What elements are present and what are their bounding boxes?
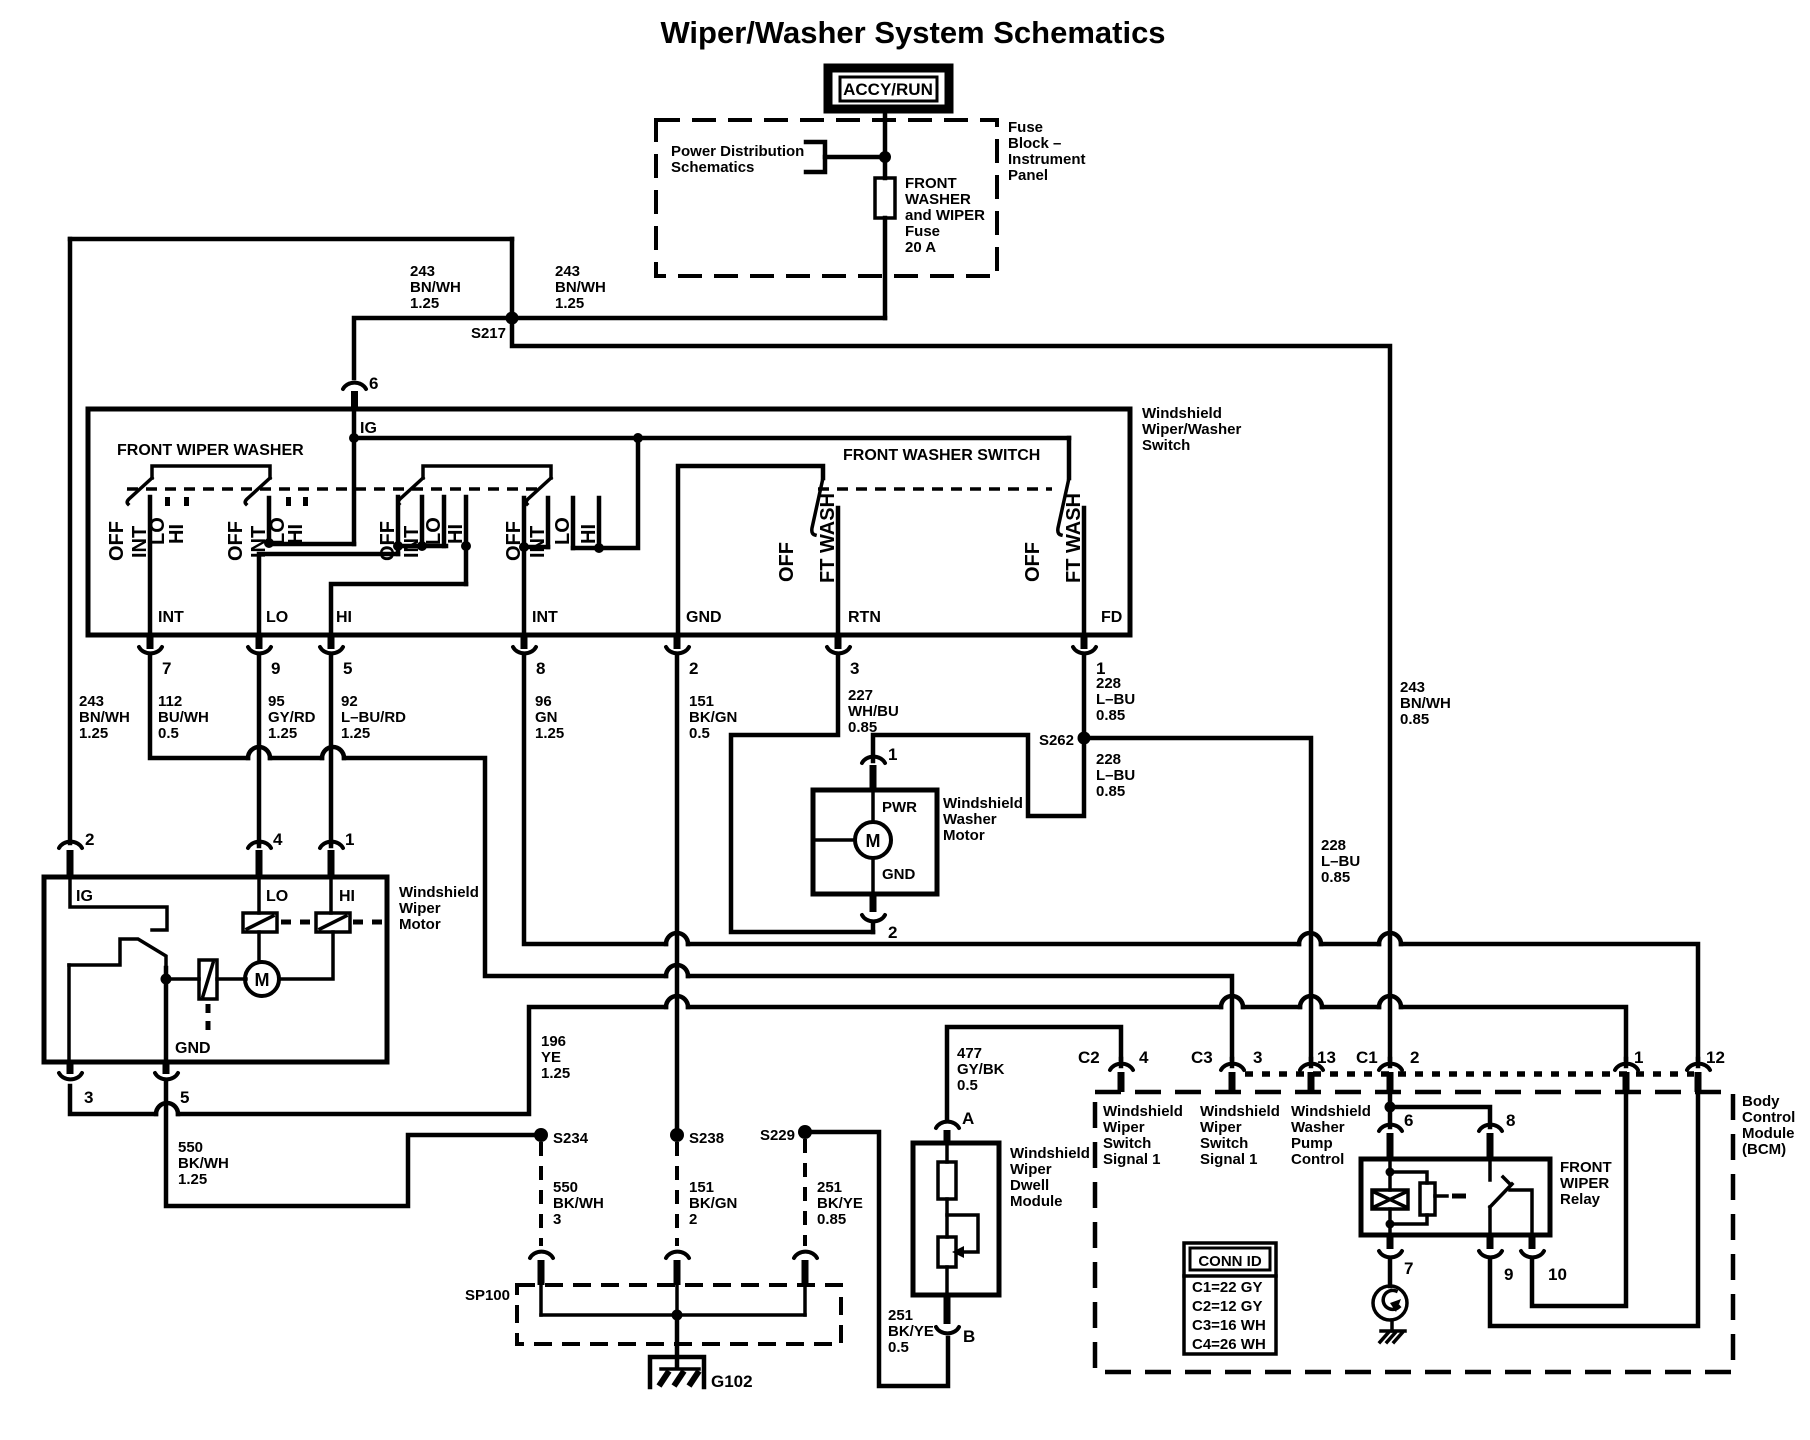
svg-text:151: 151 bbox=[689, 693, 714, 710]
switch blade section 4 bbox=[526, 478, 551, 504]
svg-text:12: 12 bbox=[1706, 1048, 1725, 1067]
svg-text:196: 196 bbox=[541, 1033, 566, 1050]
connector pin 2 bbox=[666, 635, 698, 678]
node IG at vertical bbox=[349, 433, 359, 443]
svg-text:HI: HI bbox=[445, 524, 467, 544]
washer switch B feed from IG bbox=[1067, 438, 1072, 478]
svg-text:GN: GN bbox=[535, 709, 558, 726]
svg-text:GY/BK: GY/BK bbox=[957, 1061, 1005, 1078]
BCM connector C2 pin 4 bbox=[1078, 1048, 1149, 1092]
wire S262 branch to washer motor PWR bbox=[873, 735, 1084, 816]
thermal breaker symbol bbox=[199, 960, 217, 999]
wire relay pin 10 to BCM pin 1 bbox=[1532, 1085, 1626, 1306]
hop bus3 over 243 BN/WH wire bbox=[1379, 996, 1401, 1007]
svg-text:OFF: OFF bbox=[503, 521, 525, 561]
washer switch A bracket and GND leg bbox=[678, 466, 823, 635]
svg-text:HI: HI bbox=[166, 524, 188, 544]
splice pack SP100 dashed box bbox=[517, 1285, 841, 1344]
relay coil with suppressor bbox=[1372, 1159, 1447, 1235]
svg-text:227: 227 bbox=[848, 687, 873, 704]
svg-text:243: 243 bbox=[555, 263, 580, 280]
wire 227 WH/BU pin3 to washer GND loop bbox=[731, 656, 873, 932]
svg-text:C3: C3 bbox=[1191, 1048, 1213, 1067]
svg-text:Relay: Relay bbox=[1560, 1191, 1601, 1208]
hop bus3 over 228 L-BU wire bbox=[1300, 996, 1322, 1007]
svg-text:1.25: 1.25 bbox=[79, 725, 108, 742]
svg-text:C4=26 WH: C4=26 WH bbox=[1192, 1336, 1266, 1353]
label 251 BK/YE 0.5 bbox=[888, 1307, 934, 1356]
svg-text:OFF: OFF bbox=[1022, 542, 1044, 582]
svg-text:20 A: 20 A bbox=[905, 239, 936, 256]
svg-text:C2: C2 bbox=[1078, 1048, 1100, 1067]
dwell potentiometer with wiper arrow bbox=[938, 1215, 978, 1295]
hop over pin9 wire bbox=[248, 747, 270, 758]
svg-text:Windshield: Windshield bbox=[1200, 1103, 1280, 1120]
connector SP100 pin 550 bbox=[530, 1252, 553, 1285]
svg-text:Windshield: Windshield bbox=[399, 884, 479, 901]
svg-text:243: 243 bbox=[410, 263, 435, 280]
wire motor IG internal to park contact bbox=[70, 877, 167, 930]
svg-text:Control: Control bbox=[1742, 1109, 1795, 1126]
splice S234 bbox=[534, 1128, 548, 1142]
switch dashed gang line (wiper sections) bbox=[127, 487, 540, 491]
svg-text:6: 6 bbox=[369, 374, 378, 393]
switch blade section 3 bbox=[398, 478, 423, 504]
svg-text:4: 4 bbox=[1139, 1048, 1149, 1067]
svg-text:HI: HI bbox=[336, 609, 352, 626]
svg-text:3: 3 bbox=[1253, 1048, 1262, 1067]
svg-text:1.25: 1.25 bbox=[341, 725, 370, 742]
svg-text:L–BU: L–BU bbox=[1096, 767, 1135, 784]
svg-text:1: 1 bbox=[888, 745, 897, 764]
wire fuse to S217 bbox=[883, 218, 888, 318]
wire branch to relay pin 8 bbox=[1390, 1107, 1490, 1127]
dashed wire 550 BK/WH 3 S234 to SP100 bbox=[539, 1142, 543, 1246]
svg-text:GND: GND bbox=[175, 1040, 211, 1057]
node IG drop for HI posts bbox=[633, 433, 643, 443]
connector pin 7 bbox=[139, 635, 171, 678]
svg-text:Wiper: Wiper bbox=[1010, 1161, 1052, 1178]
svg-text:FT WASH: FT WASH bbox=[817, 493, 839, 583]
svg-text:BN/WH: BN/WH bbox=[1400, 695, 1451, 712]
section1 INT post to pin 7 bbox=[148, 497, 153, 635]
section4 HI post bbox=[597, 498, 602, 548]
svg-text:Switch: Switch bbox=[1103, 1135, 1151, 1152]
svg-text:2: 2 bbox=[1410, 1048, 1419, 1067]
BCM dotted connector rail bbox=[1245, 1071, 1694, 1077]
relay dash link coil to contact bbox=[1452, 1194, 1466, 1199]
svg-text:1.25: 1.25 bbox=[541, 1065, 570, 1082]
svg-text:and WIPER: and WIPER bbox=[905, 207, 985, 224]
windshield wiper motor box bbox=[44, 877, 387, 1062]
svg-text:1.25: 1.25 bbox=[410, 295, 439, 312]
svg-text:Wiper: Wiper bbox=[399, 900, 441, 917]
HI winding symbol bbox=[316, 913, 350, 932]
label 112 BU/WH 0.5 bbox=[158, 693, 209, 742]
svg-text:0.5: 0.5 bbox=[689, 725, 710, 742]
section3 OFF post bbox=[396, 497, 401, 546]
label FRONT WASHER and WIPER Fuse 20 A bbox=[905, 175, 985, 256]
splice S217 bbox=[506, 312, 519, 325]
hop over GND wire at 167 bbox=[156, 1103, 178, 1114]
svg-text:L–BU: L–BU bbox=[1321, 853, 1360, 870]
svg-text:0.85: 0.85 bbox=[1096, 783, 1125, 800]
svg-text:251: 251 bbox=[817, 1179, 842, 1196]
svg-text:Washer: Washer bbox=[943, 811, 997, 828]
svg-text:5: 5 bbox=[343, 659, 352, 678]
section2 LO contact dot bbox=[286, 497, 291, 506]
section1 LO contact dot bbox=[165, 497, 170, 506]
wire 228 L-BU pin1 to splice S262 bbox=[1082, 656, 1087, 738]
hop bus1 over 243 BN/WH wire bbox=[1379, 933, 1401, 944]
washer motor M symbol bbox=[813, 790, 891, 894]
relay connector pin 10 bbox=[1521, 1235, 1567, 1284]
svg-text:0.85: 0.85 bbox=[1400, 711, 1429, 728]
relay connector pin 6 bbox=[1379, 1111, 1413, 1159]
label 151 BK/GN 0.5 bbox=[689, 693, 737, 742]
svg-text:7: 7 bbox=[162, 659, 171, 678]
svg-text:HI: HI bbox=[285, 524, 307, 544]
svg-text:Wiper: Wiper bbox=[1200, 1119, 1242, 1136]
svg-text:LO: LO bbox=[266, 888, 288, 905]
label Power Distribution Schematics bbox=[671, 143, 804, 176]
wire 550 BK/WH motor GND to S234 bbox=[166, 1083, 535, 1206]
svg-text:0.85: 0.85 bbox=[1096, 707, 1125, 724]
windshield washer motor box bbox=[813, 790, 937, 894]
wire 477 GY/BK dwell A to BCM C2-4 bbox=[947, 1027, 1121, 1120]
wire to bus3 riser bbox=[178, 1007, 666, 1114]
svg-text:Windshield: Windshield bbox=[1142, 405, 1222, 422]
wire LO winding to M bbox=[257, 932, 261, 962]
svg-text:INT: INT bbox=[401, 526, 423, 558]
wire relay pin 9 to BCM pin 12 bbox=[1490, 1085, 1698, 1326]
svg-text:1: 1 bbox=[345, 830, 354, 849]
connector pin 9 bbox=[248, 635, 280, 678]
svg-text:Windshield: Windshield bbox=[943, 795, 1023, 812]
svg-text:ACCY/RUN: ACCY/RUN bbox=[843, 80, 933, 99]
section3 HI post bbox=[464, 497, 469, 546]
label 227 WH/BU 0.85 bbox=[848, 687, 899, 736]
label FRONT WIPER Relay bbox=[1560, 1159, 1612, 1208]
svg-text:INT: INT bbox=[532, 609, 558, 626]
label 251 BK/YE 0.85 bbox=[817, 1179, 863, 1228]
wire C1-2 into relay branch bbox=[1388, 1092, 1393, 1127]
svg-text:9: 9 bbox=[1504, 1265, 1513, 1284]
label Windshield Wiper/Washer Switch bbox=[1142, 405, 1241, 454]
svg-text:FRONT WASHER SWITCH: FRONT WASHER SWITCH bbox=[843, 447, 1040, 464]
svg-text:HI: HI bbox=[339, 888, 355, 905]
wire top loop horizontal 243 BN/WH bbox=[70, 237, 512, 242]
wire S229 to dwell module B bbox=[805, 1132, 948, 1386]
BCM internal ground symbol bbox=[1373, 1286, 1407, 1342]
svg-text:IG: IG bbox=[76, 888, 93, 905]
svg-text:M: M bbox=[866, 831, 881, 851]
wire SP100 to G102 bbox=[675, 1315, 680, 1366]
label 243 BN/WH 1.25 (right) bbox=[555, 263, 606, 312]
svg-text:LO: LO bbox=[552, 517, 574, 545]
splice S229 bbox=[798, 1125, 812, 1139]
wire bus2 to C3 pin 3 bbox=[688, 976, 1232, 1059]
svg-text:95: 95 bbox=[268, 693, 285, 710]
dashed wire 151 BK/GN 2 S238 to SP100 bbox=[675, 1142, 679, 1246]
label 228 L-BU 0.85 right branch bbox=[1321, 837, 1360, 886]
svg-text:1.25: 1.25 bbox=[535, 725, 564, 742]
wire bus1 to BCM pin 12 bbox=[1401, 944, 1698, 1059]
svg-text:0.5: 0.5 bbox=[957, 1077, 978, 1094]
svg-text:S262: S262 bbox=[1039, 732, 1074, 749]
svg-text:Module: Module bbox=[1010, 1193, 1063, 1210]
svg-text:Dwell: Dwell bbox=[1010, 1177, 1049, 1194]
svg-text:WIPER: WIPER bbox=[1560, 1175, 1609, 1192]
svg-text:2: 2 bbox=[888, 923, 897, 942]
svg-text:2: 2 bbox=[85, 830, 94, 849]
wire 95 GY/RD pin9 to motor LO bbox=[257, 656, 262, 843]
wire section3 HI drop bbox=[464, 546, 469, 584]
section4 INT post bbox=[546, 498, 551, 547]
svg-text:550: 550 bbox=[553, 1179, 578, 1196]
svg-text:C1=22 GY: C1=22 GY bbox=[1192, 1279, 1262, 1296]
wire junction down to pin 5 GND bbox=[164, 968, 169, 1062]
windshield wiper dwell module box bbox=[913, 1143, 999, 1295]
node section3 HI bbox=[461, 541, 471, 551]
label Windshield Wiper Switch Signal 1 (C2) bbox=[1103, 1103, 1183, 1168]
hop bus2 over S238 wire bbox=[666, 965, 688, 976]
wire IG entry vertical inside switch bbox=[352, 409, 357, 544]
windshield washer motor connector pin 1 bbox=[862, 745, 897, 790]
svg-text:Fuse: Fuse bbox=[905, 223, 940, 240]
front wiper relay box bbox=[1361, 1159, 1550, 1235]
connector SP100 pin 151 bbox=[666, 1252, 689, 1285]
svg-text:13: 13 bbox=[1317, 1048, 1336, 1067]
node junction at fuse feed bbox=[879, 151, 891, 163]
svg-text:INT: INT bbox=[158, 609, 184, 626]
svg-text:BN/WH: BN/WH bbox=[79, 709, 130, 726]
section4 LO post bbox=[571, 498, 576, 548]
wiper motor connector pin 1 bbox=[320, 830, 354, 877]
svg-text:Motor: Motor bbox=[943, 827, 985, 844]
svg-text:FT WASH: FT WASH bbox=[1063, 493, 1085, 583]
washer switch A FT WASH post to pin 3 RTN bbox=[836, 508, 841, 635]
connector pin 1 bbox=[1073, 635, 1105, 678]
svg-text:2: 2 bbox=[689, 1211, 697, 1228]
dash link HI winding to box bbox=[353, 920, 384, 925]
wire bus1 continuing bbox=[688, 942, 1299, 947]
svg-text:Power Distribution: Power Distribution bbox=[671, 143, 804, 160]
section2 INT post bbox=[267, 498, 272, 544]
svg-text:LO: LO bbox=[423, 517, 445, 545]
windshield wiper/washer switch box bbox=[88, 409, 1130, 635]
node relay feed split bbox=[1385, 1102, 1396, 1113]
washer switch B FT WASH post to pin 1 FD bbox=[1082, 508, 1087, 635]
wire washer pin2 stub to GND loop bbox=[871, 924, 876, 932]
node section3 OFF bbox=[393, 541, 403, 551]
svg-text:92: 92 bbox=[341, 693, 358, 710]
svg-text:G102: G102 bbox=[711, 1372, 753, 1391]
hop over pin5 wire bbox=[322, 747, 344, 758]
svg-text:GND: GND bbox=[882, 866, 916, 883]
svg-text:BK/GN: BK/GN bbox=[689, 709, 737, 726]
connector 6 at switch IG input bbox=[343, 374, 378, 409]
dwell resistor bbox=[938, 1143, 956, 1237]
svg-text:3: 3 bbox=[850, 659, 859, 678]
section3 LO post bbox=[442, 497, 447, 546]
svg-text:2: 2 bbox=[689, 659, 698, 678]
section2 HI contact dot bbox=[303, 497, 308, 506]
connector B dwell module bbox=[936, 1295, 975, 1346]
label 95 GY/RD 1.25 bbox=[268, 693, 316, 742]
svg-text:L–BU/RD: L–BU/RD bbox=[341, 709, 406, 726]
connector pin 5 bbox=[320, 635, 352, 678]
svg-text:CONN ID: CONN ID bbox=[1198, 1253, 1262, 1270]
svg-text:Switch: Switch bbox=[1142, 437, 1190, 454]
svg-text:Motor: Motor bbox=[399, 916, 441, 933]
wire HI collector to pin 5 bbox=[331, 584, 466, 635]
LO winding symbol bbox=[243, 913, 277, 932]
node section4 OFF bbox=[519, 542, 529, 552]
svg-text:IG: IG bbox=[360, 420, 377, 437]
label 228 L-BU 0.85 below S262 bbox=[1096, 751, 1135, 800]
svg-text:Body: Body bbox=[1742, 1093, 1780, 1110]
hop bus1 over 228 L-BU wire bbox=[1299, 933, 1321, 944]
svg-text:477: 477 bbox=[957, 1045, 982, 1062]
fuse FRONT WASHER and WIPER 20A symbol bbox=[875, 178, 895, 218]
hop bus3 over S238 wire bbox=[666, 996, 688, 1007]
dashed link breaker to GND label bbox=[206, 1004, 211, 1030]
svg-text:Windshield: Windshield bbox=[1010, 1145, 1090, 1162]
svg-text:S238: S238 bbox=[689, 1130, 724, 1147]
wire S217 branch right 243 BN/WH 0.85 bbox=[512, 318, 1390, 1059]
svg-text:Switch: Switch bbox=[1200, 1135, 1248, 1152]
svg-text:4: 4 bbox=[273, 830, 283, 849]
svg-text:0.5: 0.5 bbox=[888, 1339, 909, 1356]
node park switch junction bbox=[161, 974, 172, 985]
wire 151 BK/GN pin2 to splice S238 bbox=[675, 656, 680, 1135]
washer switch A blade bbox=[812, 478, 823, 535]
dashed wire 251 BK/YE 0.85 S229 to SP100 bbox=[803, 1139, 807, 1246]
svg-text:C1: C1 bbox=[1356, 1048, 1378, 1067]
connector pin 8 bbox=[513, 635, 545, 678]
wire cam leg to pin 3 bbox=[67, 965, 71, 1062]
svg-text:Fuse: Fuse bbox=[1008, 119, 1043, 136]
power symbol ACCY/RUN box bbox=[828, 68, 949, 109]
svg-text:FRONT: FRONT bbox=[1560, 1159, 1612, 1176]
wire joining section3 posts bbox=[398, 546, 446, 554]
svg-text:243: 243 bbox=[79, 693, 104, 710]
svg-text:6: 6 bbox=[1404, 1111, 1413, 1130]
relay connector pin 8 bbox=[1479, 1111, 1515, 1159]
washer switch B blade bbox=[1058, 478, 1069, 535]
svg-text:OFF: OFF bbox=[106, 521, 128, 561]
label 243 BN/WH 1.25 wire to motor IG bbox=[79, 693, 130, 742]
wire to bus2 corner bbox=[344, 758, 666, 976]
svg-text:YE: YE bbox=[541, 1049, 561, 1066]
svg-text:8: 8 bbox=[1506, 1111, 1515, 1130]
connector SP100 pin 251 bbox=[794, 1252, 817, 1285]
splice S262 bbox=[1078, 732, 1091, 745]
node section3 INT bbox=[417, 541, 427, 551]
svg-text:S217: S217 bbox=[471, 325, 506, 342]
svg-text:C3=16 WH: C3=16 WH bbox=[1192, 1317, 1266, 1334]
relay connector pin 9 bbox=[1479, 1235, 1513, 1284]
svg-text:0.85: 0.85 bbox=[1321, 869, 1350, 886]
wire top loop vertical down to S217 bbox=[510, 239, 515, 318]
svg-text:8: 8 bbox=[536, 659, 545, 678]
label 96 GN 1.25 bbox=[535, 693, 564, 742]
wiper motor connector pin 2 bbox=[59, 830, 94, 877]
label 243 BN/WH 0.85 bbox=[1400, 679, 1451, 728]
svg-text:(BCM): (BCM) bbox=[1742, 1141, 1786, 1158]
label Windshield Wiper Switch Signal 1 (C3) bbox=[1200, 1103, 1280, 1168]
label 243 BN/WH 1.25 (left) bbox=[410, 263, 461, 312]
svg-text:1.25: 1.25 bbox=[178, 1171, 207, 1188]
wire from bracket to fuse feed bbox=[825, 155, 885, 160]
svg-text:Module: Module bbox=[1742, 1125, 1795, 1142]
svg-text:1: 1 bbox=[1634, 1048, 1643, 1067]
node SP100 ground junction bbox=[672, 1310, 683, 1321]
wire continuing bbox=[270, 756, 322, 761]
svg-text:BK/YE: BK/YE bbox=[888, 1323, 934, 1340]
switch blade section 2 bbox=[245, 478, 270, 504]
ground G102 symbol bbox=[650, 1357, 704, 1387]
svg-text:B: B bbox=[963, 1327, 975, 1346]
connector pin 3 bbox=[827, 635, 859, 678]
svg-text:OFF: OFF bbox=[776, 542, 798, 582]
wire pin1 to HI winding bbox=[329, 877, 333, 913]
CONN ID table bbox=[1184, 1243, 1276, 1354]
svg-text:Windshield: Windshield bbox=[1291, 1103, 1371, 1120]
svg-text:BK/GN: BK/GN bbox=[689, 1195, 737, 1212]
wire bus3 to BCM pin 1 bbox=[1401, 1007, 1626, 1059]
park switch cam and blade bbox=[69, 939, 166, 968]
wire M to HI winding bbox=[279, 932, 333, 979]
wire 243 BN/WH left drop to wiper motor IG bbox=[68, 239, 73, 843]
label 196 YE 1.25 bbox=[541, 1033, 570, 1082]
label 151 BK/GN 2 bbox=[689, 1179, 737, 1228]
svg-text:C2=12 GY: C2=12 GY bbox=[1192, 1298, 1262, 1315]
svg-text:BK/WH: BK/WH bbox=[178, 1155, 229, 1172]
wire LO collector to pin 9 bbox=[259, 554, 398, 635]
label Body Control Module (BCM) bbox=[1742, 1093, 1795, 1158]
svg-text:Control: Control bbox=[1291, 1151, 1344, 1168]
wire motor pin3 to bus3 bbox=[70, 1086, 156, 1114]
svg-text:OFF: OFF bbox=[225, 521, 247, 561]
body control module BCM dashed box bbox=[1095, 1092, 1733, 1372]
svg-text:HI: HI bbox=[578, 524, 600, 544]
svg-text:Wiper/Washer System Schematics: Wiper/Washer System Schematics bbox=[660, 15, 1165, 50]
svg-text:OFF: OFF bbox=[377, 521, 399, 561]
svg-text:WASHER: WASHER bbox=[905, 191, 971, 208]
label Windshield Washer Motor bbox=[943, 795, 1023, 844]
wiper switch bracket sections 3-4 bbox=[423, 466, 551, 478]
svg-text:1.25: 1.25 bbox=[268, 725, 297, 742]
switch dashed gang line (washer sections) bbox=[818, 487, 1052, 491]
svg-text:Panel: Panel bbox=[1008, 167, 1048, 184]
relay switch contact bbox=[1490, 1159, 1532, 1235]
relay connector pin 7 bbox=[1379, 1235, 1413, 1278]
wire S217 horizontal to connector 6 drop bbox=[354, 318, 885, 378]
svg-text:0.85: 0.85 bbox=[817, 1211, 846, 1228]
label 550 BK/WH 3 bbox=[553, 1179, 604, 1228]
wire pin4 to LO winding bbox=[257, 877, 261, 913]
svg-text:Schematics: Schematics bbox=[671, 159, 754, 176]
windshield washer motor connector pin 2 bbox=[862, 894, 897, 942]
svg-text:FD: FD bbox=[1101, 609, 1122, 626]
svg-text:S229: S229 bbox=[760, 1127, 795, 1144]
svg-text:LO: LO bbox=[266, 609, 288, 626]
svg-text:BU/WH: BU/WH bbox=[158, 709, 209, 726]
wire relay pin 7 to ground bbox=[1388, 1261, 1393, 1286]
label 550 BK/WH 1.25 bbox=[178, 1139, 229, 1188]
